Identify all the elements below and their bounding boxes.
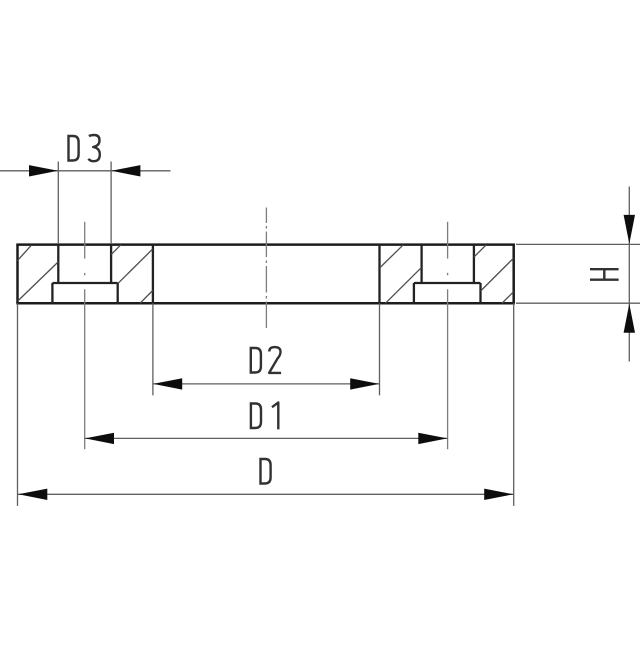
left bolt hole center line [84,222,86,449]
right bolt hole center line [447,222,449,449]
left bolt hole right wall [110,245,112,283]
flange left edge [16,245,19,304]
flange right edge [512,245,515,304]
hatch line 10 [502,292,514,303]
dimension H bottom arrow [624,304,635,333]
label D3 [69,135,100,162]
dimension D line [18,493,514,495]
dimension D2 right extension [379,303,381,395]
middle center line [265,208,267,329]
dimension D1 left arrow [85,433,114,444]
dimension H top extension [516,243,640,245]
dimension D1 line [85,437,448,439]
hatch line 5 [140,291,153,304]
dimension D right arrow [484,489,513,500]
dimension D2 left extension [152,303,154,395]
right counterbore step [414,282,481,284]
hatch line 1 [18,245,32,260]
left block inner edge (recess shoulder) [152,245,154,304]
dimension H line [628,187,630,362]
hatch line 8 [474,245,486,257]
dimension D3 right arrow [111,165,140,176]
hatch line 4 [118,249,152,283]
hatch line 3 [111,245,121,255]
right counterbore left wall [413,283,415,303]
hatch line 7 [386,268,422,304]
dimension D3 right extension [110,162,112,245]
right bolt hole right wall [473,245,475,283]
dimension D3 line [0,170,171,172]
dimension H top arrow [624,215,635,244]
left counterbore step [52,282,117,284]
left counterbore left wall [51,283,53,303]
dimension H bottom extension [516,302,640,304]
dimension D2 right arrow [350,378,379,389]
label D2 [251,347,281,374]
hatch line 9 [481,258,514,291]
dimension D left extension [17,303,19,506]
dimension D3 left arrow [29,165,58,176]
label D [261,458,271,485]
dimension D right extension [513,303,515,506]
right block inner edge (recess shoulder) [378,245,380,304]
label D1 [251,402,278,429]
left bolt hole left wall [57,245,59,283]
right counterbore right wall [479,283,481,303]
flange bottom edge [16,302,515,305]
label H (rotated) [590,269,619,280]
dimension D left arrow [18,489,47,500]
hatch line 2 [18,262,58,301]
dimension D2 line [153,383,380,385]
left counterbore right wall [117,283,119,303]
hatch line 6 [380,245,404,268]
dimension D2 left arrow [153,378,182,389]
flange top edge [16,243,515,246]
dimension D3 left extension [57,162,59,245]
right bolt hole left wall [420,245,422,283]
dimension D1 right arrow [418,433,447,444]
